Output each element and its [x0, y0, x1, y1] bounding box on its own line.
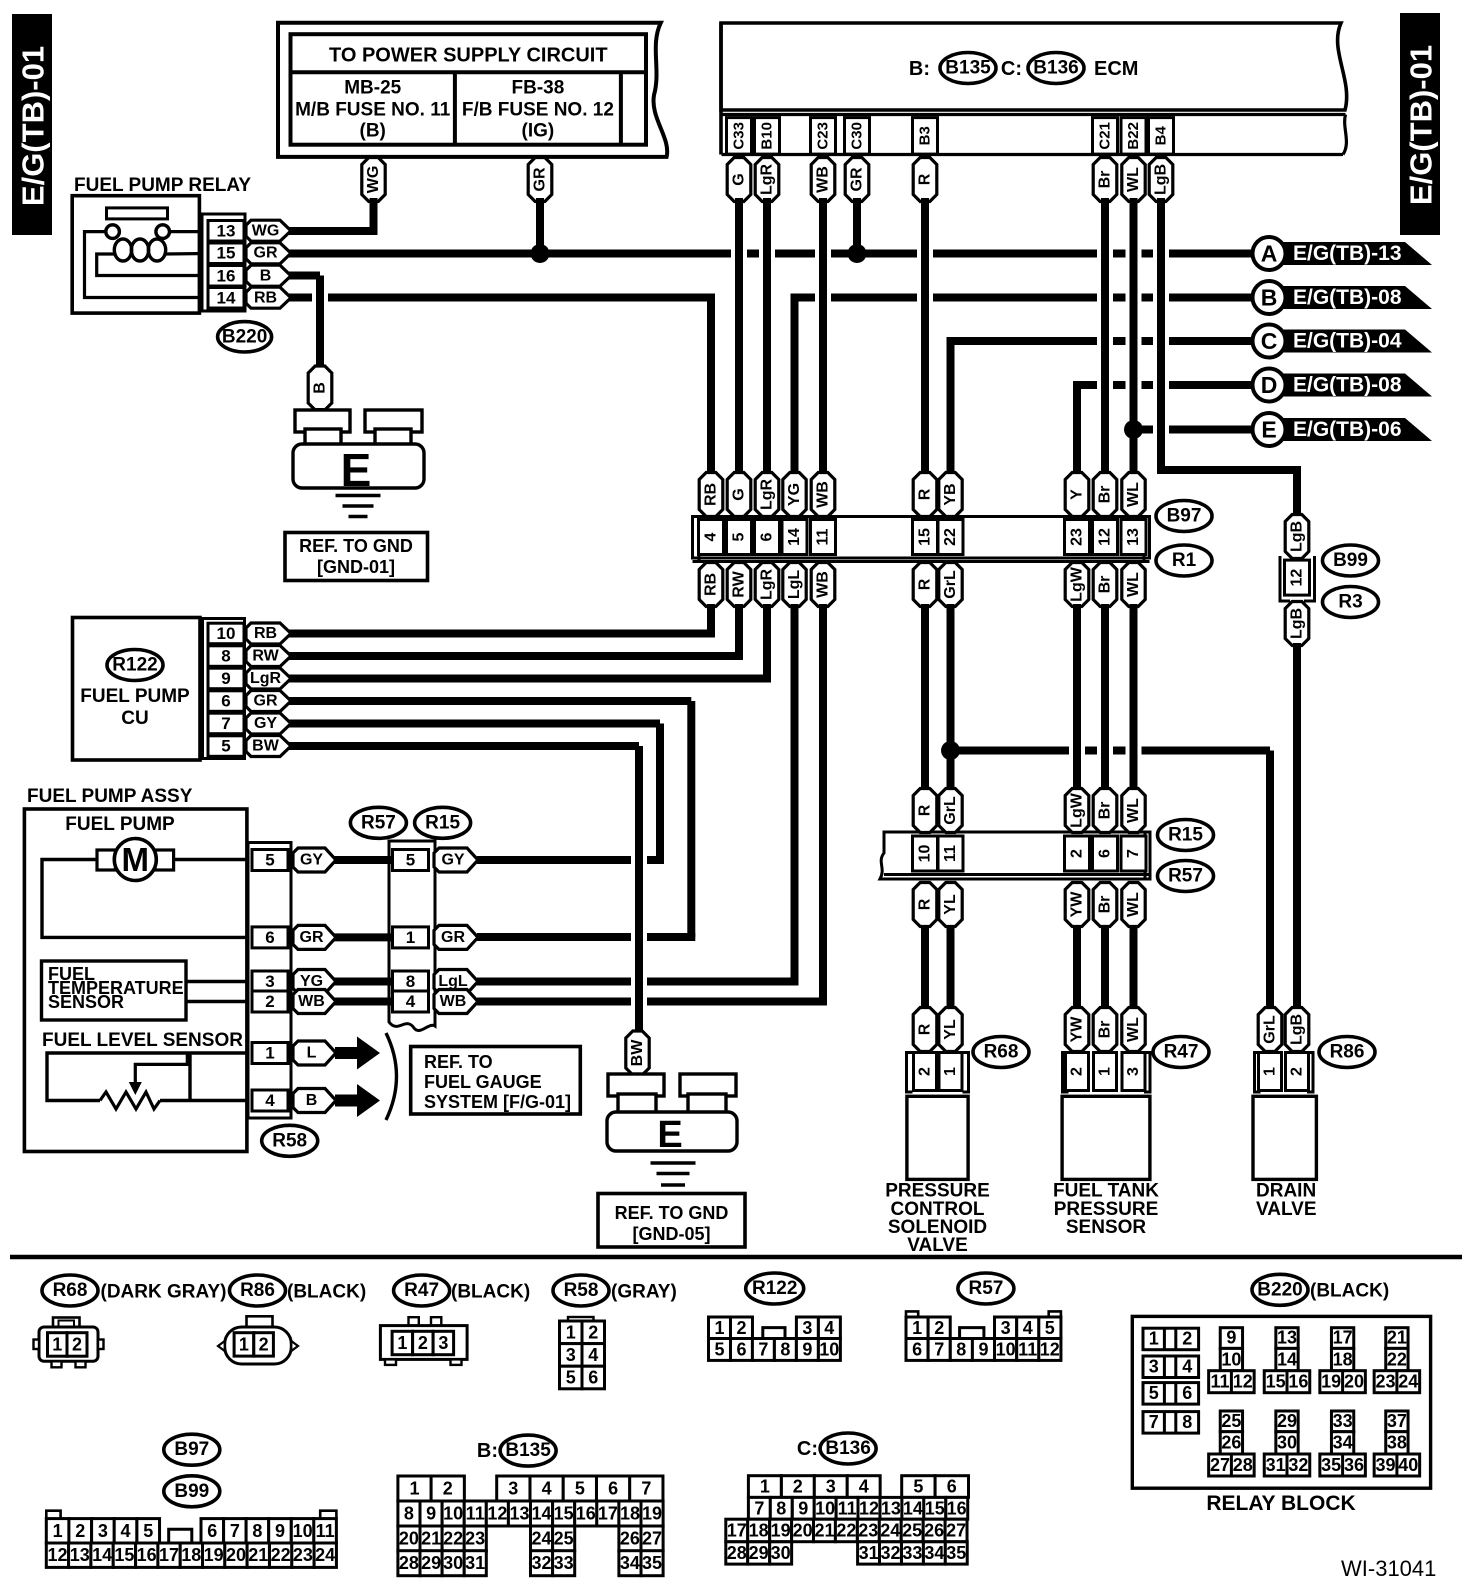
svg-text:FB-38: FB-38 [512, 78, 565, 99]
svg-text:30: 30 [1277, 1433, 1297, 1453]
svg-text:FUEL PUMP ASSY: FUEL PUMP ASSY [27, 786, 193, 807]
svg-text:38: 38 [1387, 1433, 1407, 1453]
wire GR bus: relay pin 15 to flag A [288, 250, 1257, 258]
svg-text:31: 31 [1266, 1455, 1286, 1475]
wire label LgB (ECM side) [1149, 158, 1173, 202]
svg-text:M: M [122, 841, 150, 878]
connector ref B97 [1156, 501, 1212, 532]
wire label G (ECM side) [727, 158, 751, 202]
pressure control solenoid valve [885, 1008, 990, 1257]
svg-text:36: 36 [1344, 1455, 1364, 1475]
svg-text:E: E [657, 1114, 682, 1156]
relay contact circles [106, 225, 120, 239]
wire LgB: ECM B4 jog to B99 connector [1157, 198, 1297, 517]
svg-text:7: 7 [221, 714, 230, 733]
svg-text:25: 25 [554, 1529, 574, 1549]
svg-text:R57: R57 [968, 1278, 1003, 1299]
svg-text:Br: Br [1097, 486, 1114, 504]
R57/R15 column pin 5 GY [393, 848, 479, 872]
svg-text:20: 20 [793, 1520, 813, 1540]
B97/R1 pin 11 [811, 520, 836, 555]
wire label GR (fuse FB-38) [528, 158, 552, 202]
svg-text:23: 23 [293, 1545, 313, 1565]
svg-text:M/B FUSE NO. 11: M/B FUSE NO. 11 [295, 100, 451, 121]
svg-text:16: 16 [576, 1504, 596, 1524]
B97/R1 pin 6 [755, 520, 780, 555]
svg-text:WB: WB [815, 166, 832, 193]
connector R86 face view [218, 1316, 298, 1364]
svg-text:FUEL PUMP: FUEL PUMP [65, 814, 175, 835]
svg-text:RB: RB [254, 289, 277, 306]
svg-text:5: 5 [143, 1521, 153, 1541]
svg-text:RELAY BLOCK: RELAY BLOCK [1206, 1492, 1355, 1515]
svg-text:F/B FUSE NO. 12: F/B FUSE NO. 12 [462, 100, 614, 121]
svg-text:1: 1 [714, 1318, 724, 1338]
svg-text:FUEL PUMP: FUEL PUMP [80, 686, 190, 707]
svg-text:8: 8 [776, 1498, 786, 1518]
svg-text:22: 22 [942, 528, 959, 546]
svg-text:R86: R86 [1330, 1042, 1365, 1063]
svg-text:R: R [917, 488, 934, 500]
svg-text:22: 22 [1387, 1349, 1407, 1369]
separator line [10, 1255, 1462, 1260]
wire LgR: B97 pin 6 to R122 pin 9 [288, 604, 771, 679]
ECM pin B22 [1121, 118, 1146, 155]
ECM pin C23 [811, 118, 836, 155]
svg-text:15: 15 [1266, 1372, 1286, 1392]
svg-text:15: 15 [917, 528, 934, 546]
wire label YB (B97 top) [939, 473, 962, 517]
svg-text:14: 14 [786, 528, 803, 546]
svg-text:C:: C: [1001, 58, 1022, 80]
svg-text:13: 13 [881, 1498, 901, 1518]
ref to gnd GND-05 box [598, 1194, 745, 1248]
connector B220 [218, 322, 272, 352]
svg-text:C: C [1261, 328, 1278, 354]
wire GrL branch to drain valve pin 1 [951, 751, 1271, 1011]
connector R47 face view [380, 1317, 467, 1365]
svg-text:4: 4 [120, 1521, 130, 1541]
svg-text:GR: GR [849, 167, 866, 191]
connector ref R68 [973, 1037, 1029, 1068]
wire label Br (B97 top) [1093, 473, 1117, 517]
R15/R57 pin 10 [913, 836, 938, 871]
svg-text:GrL: GrL [942, 796, 959, 825]
svg-text:22: 22 [271, 1545, 291, 1565]
wire R: ECM B3 to B97 pin 15 [921, 198, 929, 474]
svg-text:Br: Br [1097, 171, 1114, 189]
wire label GrL (B97 bottom) [939, 563, 962, 607]
svg-text:13: 13 [1277, 1328, 1297, 1348]
ECM pin B10 [755, 118, 780, 155]
R58 pin 6 GR [252, 925, 336, 949]
svg-text:C23: C23 [815, 122, 832, 150]
svg-text:E/G(TB)-08: E/G(TB)-08 [1293, 374, 1402, 397]
R15/R57 pin 11 [938, 836, 963, 871]
wire label Br (R15/R57 top) [1093, 789, 1117, 833]
svg-text:B: B [306, 1092, 318, 1109]
svg-text:12: 12 [859, 1498, 879, 1518]
svg-text:D: D [1261, 372, 1278, 398]
svg-text:16: 16 [947, 1498, 967, 1518]
svg-text:4: 4 [703, 532, 720, 541]
svg-text:6: 6 [736, 1340, 746, 1360]
wire YW: R15/R57 to component [1073, 926, 1081, 1010]
svg-text:R58: R58 [564, 1280, 599, 1301]
svg-text:2: 2 [1069, 849, 1086, 858]
svg-text:R1: R1 [1172, 550, 1197, 571]
svg-text:YL: YL [942, 1019, 959, 1040]
connector R68 face view [34, 1318, 104, 1368]
connector ref B97 (legend) [164, 1434, 220, 1465]
R57/R15 column pin 1 GR [393, 925, 479, 949]
svg-text:22: 22 [443, 1529, 463, 1549]
svg-text:24: 24 [1398, 1372, 1418, 1392]
wire GR: R122 pin 6 to R57/R15 pin 1 [288, 701, 695, 937]
relay connector housing [202, 214, 245, 311]
connector R58 face view [560, 1317, 605, 1389]
connector ref R57 (column) [350, 807, 406, 838]
R122 pin 9 LgR [208, 668, 291, 689]
B97/R1 pin 5 [727, 520, 752, 555]
svg-text:16: 16 [1288, 1372, 1308, 1392]
svg-text:RB: RB [703, 483, 720, 506]
svg-text:B220: B220 [1257, 1279, 1302, 1300]
connector ref R58 [262, 1125, 318, 1156]
svg-text:B:: B: [909, 58, 930, 80]
flag A E/G(TB)-13 [1253, 237, 1433, 270]
svg-text:6: 6 [608, 1479, 618, 1499]
R57/R15 connector housing [389, 841, 435, 1031]
svg-text:2: 2 [443, 1479, 453, 1499]
wire WB: B97 pin 11 to R57/R15 pin 4 [477, 604, 827, 1002]
wire label G (B97 top) [727, 473, 751, 517]
svg-text:10: 10 [996, 1340, 1016, 1360]
svg-text:Br: Br [1097, 576, 1114, 594]
svg-text:E/G(TB)-13: E/G(TB)-13 [1293, 242, 1402, 265]
B97/R1 pin 14 [782, 520, 807, 555]
svg-text:24: 24 [531, 1529, 551, 1549]
wire label YW (R15/R57 bottom) [1065, 883, 1089, 927]
wire label YL (R15/R57 bottom) [939, 883, 962, 927]
svg-text:33: 33 [554, 1553, 574, 1573]
svg-text:5: 5 [406, 851, 415, 870]
svg-text:11: 11 [316, 1521, 335, 1541]
svg-text:10: 10 [293, 1521, 313, 1541]
svg-text:2: 2 [1069, 1067, 1086, 1076]
svg-text:(GRAY): (GRAY) [611, 1282, 677, 1303]
svg-text:WI-31041: WI-31041 [1341, 1556, 1436, 1581]
R58 pin 2 WB [252, 990, 336, 1014]
svg-text:FUEL LEVEL SENSOR: FUEL LEVEL SENSOR [42, 1030, 243, 1051]
svg-text:8: 8 [956, 1340, 966, 1360]
svg-text:6: 6 [221, 692, 230, 711]
ECM pin C30 [845, 118, 870, 155]
svg-text:BW: BW [252, 738, 280, 755]
svg-text:2: 2 [1289, 1067, 1306, 1076]
svg-text:20: 20 [226, 1545, 246, 1565]
relay pin 15 GR [208, 243, 291, 264]
svg-text:15: 15 [554, 1504, 574, 1524]
svg-text:LgR: LgR [250, 670, 282, 687]
svg-text:6: 6 [265, 928, 274, 947]
connector ref R15 (column) [415, 807, 471, 838]
wire label Br (R15/R57 bottom) [1093, 883, 1117, 927]
svg-text:(BLACK): (BLACK) [451, 1282, 530, 1303]
svg-text:GR: GR [254, 245, 278, 262]
flag C E/G(TB)-04 [1253, 325, 1433, 358]
svg-text:7: 7 [934, 1340, 944, 1360]
connector ref B99 [1323, 545, 1379, 576]
svg-text:4: 4 [542, 1479, 552, 1499]
svg-text:29: 29 [749, 1543, 769, 1563]
fuel pump relay [72, 175, 291, 313]
svg-text:R47: R47 [1164, 1042, 1199, 1063]
connector R57 face view [906, 1311, 1061, 1360]
svg-text:4: 4 [859, 1477, 869, 1497]
svg-text:9: 9 [802, 1340, 812, 1360]
svg-text:2: 2 [934, 1318, 944, 1338]
svg-text:1: 1 [53, 1521, 63, 1541]
svg-text:8: 8 [780, 1340, 790, 1360]
flag D E/G(TB)-08 [1253, 369, 1433, 402]
wire BW: R122 pin 5 to ground E [288, 746, 639, 1033]
svg-text:6: 6 [912, 1340, 922, 1360]
svg-text:34: 34 [620, 1553, 640, 1573]
R57/R15 column pin 4 WB [393, 990, 479, 1014]
B97/R1 pin 15 [913, 520, 938, 555]
wire label GrL (R15/R57 top) [939, 789, 962, 833]
svg-text:14: 14 [1277, 1349, 1297, 1369]
svg-text:2: 2 [1182, 1329, 1192, 1349]
R58 pin 3 YG [252, 970, 336, 994]
svg-text:5: 5 [575, 1479, 585, 1499]
svg-text:14: 14 [531, 1504, 551, 1524]
svg-text:FUEL PUMP RELAY: FUEL PUMP RELAY [74, 175, 251, 196]
R15/R57 pin 7 [1121, 836, 1146, 871]
svg-text:YL: YL [942, 894, 959, 915]
svg-text:1: 1 [1149, 1329, 1159, 1349]
connector ref R47 [1153, 1037, 1209, 1068]
svg-text:25: 25 [902, 1520, 922, 1540]
svg-text:YG: YG [786, 483, 803, 506]
svg-text:6: 6 [1182, 1383, 1192, 1403]
svg-text:G: G [731, 488, 748, 500]
svg-text:YW: YW [1069, 891, 1086, 918]
svg-text:24: 24 [880, 1520, 900, 1540]
wire R: R15/R57 to component [921, 926, 929, 1010]
svg-text:2: 2 [917, 1067, 934, 1076]
svg-text:G: G [731, 173, 748, 185]
svg-text:(IG): (IG) [522, 121, 555, 142]
svg-text:WL: WL [1125, 798, 1142, 823]
svg-text:REF. TO: REF. TO [424, 1052, 493, 1072]
connector ref R1 [1156, 545, 1212, 576]
svg-text:RB: RB [254, 625, 277, 642]
ECM pin C33 [727, 118, 752, 155]
svg-text:11: 11 [838, 1498, 857, 1518]
svg-text:[GND-05]: [GND-05] [632, 1224, 710, 1244]
svg-text:15: 15 [114, 1545, 134, 1565]
svg-text:19: 19 [642, 1504, 662, 1524]
wire WG fuse to relay pin 13 [288, 198, 378, 231]
wire YB: B97 pin 22 to flag C [947, 341, 1258, 474]
svg-text:1: 1 [52, 1334, 62, 1354]
drain valve [1253, 1008, 1317, 1221]
svg-text:Y: Y [1069, 489, 1086, 500]
R15/R57 pin 2 [1065, 836, 1090, 871]
svg-text:R47: R47 [404, 1280, 439, 1301]
wire label B (to ground) [308, 366, 332, 414]
svg-text:4: 4 [1182, 1357, 1192, 1377]
svg-text:B: B [260, 267, 272, 284]
svg-text:B22: B22 [1125, 122, 1142, 150]
svg-text:B136: B136 [1033, 58, 1078, 79]
svg-text:3: 3 [566, 1345, 576, 1365]
svg-text:12: 12 [487, 1504, 507, 1524]
junction WL / flag E [1124, 420, 1143, 439]
svg-text:R86: R86 [240, 1280, 275, 1301]
svg-text:5: 5 [731, 532, 748, 541]
svg-text:B99: B99 [1333, 550, 1368, 571]
svg-text:TO POWER SUPPLY CIRCUIT: TO POWER SUPPLY CIRCUIT [329, 45, 608, 67]
relay internal wiring [85, 232, 207, 298]
svg-text:WL: WL [1125, 572, 1142, 597]
R122 pin 10 RB [208, 623, 291, 644]
svg-text:8: 8 [221, 647, 230, 666]
wire link [334, 978, 394, 986]
svg-text:B135: B135 [945, 58, 991, 79]
svg-text:REF. TO GND: REF. TO GND [615, 1203, 729, 1223]
svg-text:R57: R57 [361, 812, 396, 833]
svg-text:8: 8 [252, 1521, 262, 1541]
wire label BW (to ground) [626, 1031, 649, 1078]
svg-text:28: 28 [727, 1543, 747, 1563]
wire GR: ECM C30 to GR bus junction [853, 198, 861, 254]
svg-text:E/G(TB)-01: E/G(TB)-01 [1404, 45, 1439, 205]
svg-text:A: A [1261, 241, 1278, 267]
svg-text:9: 9 [798, 1498, 808, 1518]
svg-text:E/G(TB)-04: E/G(TB)-04 [1293, 330, 1402, 353]
svg-text:R68: R68 [53, 1280, 88, 1301]
ref to gnd GND-01 box [285, 533, 428, 581]
svg-text:34: 34 [924, 1543, 944, 1563]
svg-text:6: 6 [588, 1368, 598, 1388]
svg-text:23: 23 [1375, 1372, 1395, 1392]
svg-text:11: 11 [1018, 1340, 1037, 1360]
fuel tank pressure sensor [1053, 1008, 1159, 1239]
wire label RW (B97 bottom) [727, 563, 751, 607]
svg-text:20: 20 [1344, 1372, 1364, 1392]
R58 connector housing [248, 843, 291, 1119]
svg-text:LgB: LgB [1289, 608, 1306, 639]
svg-text:31: 31 [465, 1553, 485, 1573]
svg-text:12: 12 [1097, 528, 1114, 546]
wire GrL: B97 pin 22 to R15/R57 pin 11 [947, 604, 955, 790]
connector ref R3 [1323, 587, 1379, 618]
svg-text:39: 39 [1375, 1455, 1395, 1475]
relay block B220 face view [1132, 1316, 1430, 1515]
R122 pin 8 RW [208, 646, 291, 667]
svg-text:1: 1 [942, 1067, 959, 1076]
svg-text:11: 11 [466, 1504, 485, 1524]
svg-text:22: 22 [836, 1520, 856, 1540]
svg-text:2: 2 [736, 1318, 746, 1338]
svg-text:6: 6 [1097, 849, 1114, 858]
wire label LgB (B99 top) [1285, 515, 1309, 559]
svg-text:R: R [917, 804, 934, 816]
svg-text:8: 8 [404, 1504, 414, 1524]
svg-text:1: 1 [239, 1334, 249, 1354]
connector B136 face view [726, 1476, 969, 1564]
svg-text:19: 19 [1321, 1372, 1341, 1392]
R58 pin 5 GY [252, 848, 336, 872]
connector ref R57 [1158, 861, 1214, 892]
svg-text:19: 19 [204, 1545, 224, 1565]
svg-text:MB-25: MB-25 [344, 78, 401, 99]
B97/R1 pin 4 [699, 520, 724, 555]
svg-text:RB: RB [703, 573, 720, 596]
left title bar E/G(TB)-01 [12, 14, 52, 235]
svg-text:5: 5 [566, 1368, 576, 1388]
svg-text:11: 11 [942, 845, 959, 862]
svg-text:32: 32 [531, 1553, 551, 1573]
svg-text:21: 21 [248, 1545, 268, 1565]
svg-text:ECM: ECM [1094, 58, 1138, 80]
connector ref R68 (legend) [42, 1275, 226, 1306]
svg-text:C21: C21 [1097, 122, 1114, 150]
svg-text:29: 29 [421, 1553, 441, 1573]
svg-text:E/G(TB)-08: E/G(TB)-08 [1293, 286, 1402, 309]
connector ref B135 (legend) [477, 1435, 556, 1466]
wire GY: R122 pin 7 to R57/R15 pin 5 [288, 724, 664, 861]
svg-text:23: 23 [1069, 528, 1086, 546]
level sensor resistor [100, 1092, 160, 1109]
svg-text:23: 23 [858, 1520, 878, 1540]
svg-text:10: 10 [819, 1340, 839, 1360]
ECM pin B3 [913, 118, 938, 155]
junction GR bus / ECM C30 [848, 244, 867, 263]
svg-text:R15: R15 [1168, 825, 1203, 846]
connector B135 face view [398, 1476, 663, 1576]
svg-text:8: 8 [406, 972, 415, 991]
svg-text:2: 2 [265, 992, 274, 1011]
ground symbol E (GND-05) [607, 1074, 737, 1185]
svg-text:14: 14 [217, 288, 236, 307]
svg-text:32: 32 [880, 1543, 900, 1563]
svg-text:18: 18 [1333, 1349, 1353, 1369]
svg-text:10: 10 [1221, 1349, 1241, 1369]
svg-text:15: 15 [217, 244, 236, 263]
svg-text:E/G(TB)-06: E/G(TB)-06 [1293, 418, 1402, 441]
svg-text:10: 10 [917, 845, 934, 863]
svg-text:3: 3 [265, 972, 274, 991]
svg-text:7: 7 [230, 1521, 240, 1541]
svg-text:SENSOR: SENSOR [48, 992, 124, 1012]
svg-text:WB: WB [298, 993, 325, 1010]
connector ref B99 (legend) [164, 1476, 220, 1507]
ECM pin B4 [1149, 118, 1174, 155]
connector ref B220 (legend) [1252, 1274, 1389, 1305]
svg-text:27: 27 [946, 1520, 966, 1540]
wire RB: relay pin 14 to B97 pin 4 [288, 298, 715, 475]
wire label Br (B97 bottom) [1093, 563, 1117, 607]
svg-text:7: 7 [754, 1498, 764, 1518]
svg-text:35: 35 [946, 1543, 966, 1563]
svg-text:(DARK GRAY): (DARK GRAY) [101, 1282, 227, 1303]
svg-text:21: 21 [421, 1529, 441, 1549]
svg-text:R: R [917, 173, 934, 185]
